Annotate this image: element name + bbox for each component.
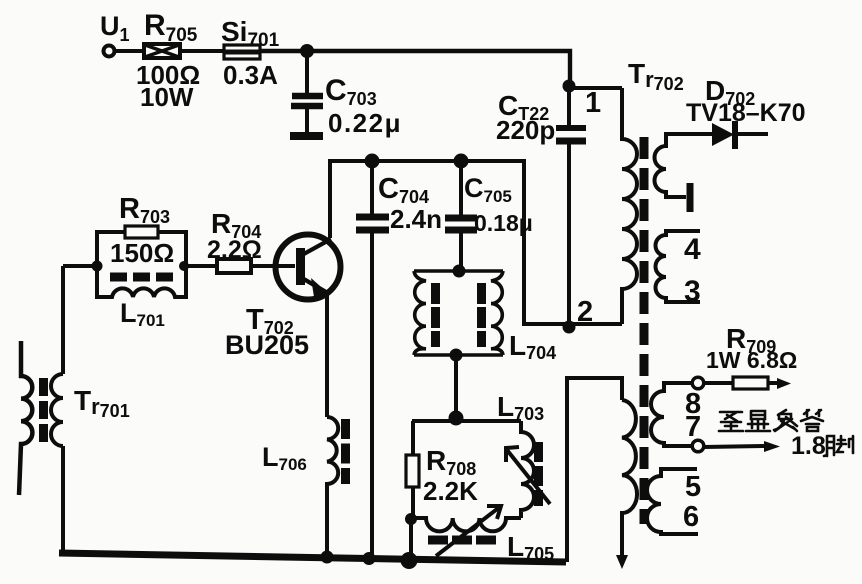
- fuse Si701: [223, 45, 261, 59]
- coil L704 twin winding: [414, 271, 503, 355]
- transformer Tr702 secondary winding 4-3: [656, 231, 701, 302]
- svg-text:150Ω: 150Ω: [110, 238, 174, 268]
- node junction 569,86: [563, 80, 576, 93]
- capacitor C703: [290, 51, 323, 136]
- transformer Tr702 primary winding: [622, 88, 637, 324]
- transformer Tr702 secondary winding top: [655, 134, 713, 197]
- arrow L705 adjustable: [436, 506, 501, 556]
- svg-text:6: 6: [683, 501, 699, 533]
- wire emitter down: [325, 294, 329, 417]
- wire base branch down: [61, 266, 65, 555]
- svg-text:0.22μ: 0.22μ: [328, 108, 402, 138]
- svg-text:5: 5: [685, 471, 701, 503]
- wire top rail: [260, 51, 570, 86]
- inductor L703: [521, 421, 534, 518]
- core Tr701: [39, 378, 48, 442]
- transformer Tr701 primary winding: [19, 341, 32, 495]
- resistor R708: [406, 421, 419, 519]
- resistor R704: [184, 259, 251, 273]
- node junction C704 top: [365, 154, 380, 169]
- node junction L705 left: [405, 513, 417, 525]
- wire U1 to R705: [115, 49, 144, 53]
- wire collector: [328, 161, 332, 238]
- svg-text:220p: 220p: [496, 115, 555, 145]
- svg-text:10W: 10W: [140, 82, 194, 112]
- node junction box top: [449, 411, 464, 426]
- svg-text:BU205: BU205: [225, 330, 309, 360]
- node junction loop left: [92, 261, 103, 272]
- resistor R709: [704, 377, 791, 389]
- arrow L703 adjustable: [506, 447, 550, 504]
- resistor R703 and coil L701 parallel loop: [63, 226, 186, 297]
- inductor L706: [327, 417, 338, 559]
- core L703: [534, 442, 543, 506]
- node junction CT22 bottom: [563, 321, 576, 334]
- node U1 terminal: [104, 46, 115, 57]
- wire bottom rail: [59, 553, 566, 562]
- node junction top C703: [300, 44, 314, 58]
- svg-text:1: 1: [585, 87, 601, 119]
- wire pin7 out: [704, 441, 780, 452]
- core L706: [341, 419, 350, 484]
- transformer Tr702 secondary winding 8-7: [651, 383, 692, 446]
- resistor R705: [144, 44, 180, 58]
- diode D702: [712, 121, 768, 149]
- wire R705 to Si701: [180, 49, 224, 53]
- terminal bar: [687, 183, 694, 212]
- transformer Tr701 secondary winding: [51, 374, 63, 446]
- inductor L705: [413, 518, 521, 531]
- svg-text:1W 6.8Ω: 1W 6.8Ω: [706, 347, 797, 373]
- transformer Tr702 lower left winding: [622, 400, 637, 560]
- svg-text:7: 7: [685, 411, 701, 443]
- wire L704 to L703 box: [454, 355, 458, 420]
- svg-text:3: 3: [684, 275, 701, 308]
- capacitor C704: [356, 161, 389, 560]
- wire box top edge: [412, 419, 521, 423]
- svg-text:2.4n: 2.4n: [390, 204, 442, 234]
- node junction loop right: [179, 261, 189, 271]
- node terminal 7: [692, 440, 704, 452]
- arrow winding end down: [616, 555, 628, 569]
- node junction L704 bottom: [450, 349, 463, 362]
- node junction C704 bottom: [363, 552, 376, 565]
- svg-text:TV18–K70: TV18–K70: [686, 99, 806, 127]
- svg-text:0.3A: 0.3A: [223, 60, 278, 90]
- capacitor C705: [445, 161, 477, 271]
- node junction C705 top: [454, 154, 469, 169]
- core L705: [428, 536, 499, 545]
- svg-text:0.18μ: 0.18μ: [474, 210, 533, 236]
- transistor T702: [251, 235, 341, 300]
- svg-text:2.2Ω: 2.2Ω: [207, 236, 262, 264]
- svg-text:4: 4: [684, 233, 701, 266]
- transformer Tr702 secondary winding 5-6: [647, 469, 698, 534]
- wire junction to bottom rail: [409, 519, 413, 561]
- wire junction to Tr702 primary: [569, 86, 622, 90]
- wire second rail: [330, 161, 622, 324]
- svg-text:1.8: 1.8: [791, 432, 826, 460]
- node junction L704 top: [453, 265, 466, 278]
- svg-text:2.2K: 2.2K: [423, 476, 478, 506]
- core Tr702: [640, 137, 649, 524]
- label to picture tube: [719, 410, 823, 431]
- node junction R708 bottom: [401, 552, 418, 569]
- node terminal 8: [692, 377, 704, 389]
- wire right branch to bottom rail: [567, 378, 622, 562]
- node junction emitter bottom: [321, 551, 334, 564]
- capacitor CT22: [556, 86, 586, 325]
